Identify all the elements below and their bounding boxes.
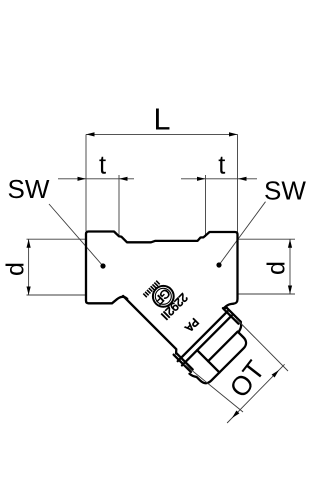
logo GF emblem [151, 285, 174, 308]
collar rim outer upper [227, 308, 241, 322]
wire: L dimension extension line right [237, 134, 239, 232]
wire: SW leader line left [49, 204, 103, 266]
wire: SW leader line right [219, 202, 266, 265]
wire: OT extension line lower [184, 364, 243, 412]
wire: L dimension line [86, 133, 238, 135]
collar flange face 1 [178, 311, 228, 361]
wire: t right dimension line [181, 178, 257, 180]
outlet branch assembly (rotated 45deg) [117, 250, 255, 388]
wire: d left upper extension line [27, 238, 87, 240]
union nut chamfer and flats outline upper [189, 321, 256, 388]
wire: t right extension line [205, 175, 207, 237]
wire: branch lower wall [121, 296, 179, 354]
wire: d left lower extension line [27, 294, 87, 296]
union nut perpendicular split line [208, 332, 238, 362]
svg-text:t: t [99, 152, 106, 180]
wire: OT dimension line [227, 364, 285, 423]
wire: branch upper wall jog [223, 306, 227, 310]
union nut axial flat line [197, 350, 219, 372]
wire: t left extension line [118, 175, 120, 237]
wire: d right lower extension line [238, 293, 295, 295]
collar rim outer lower [174, 355, 191, 372]
wire: d right dimension line [289, 239, 291, 294]
svg-text:SW: SW [8, 174, 50, 204]
node center mark dot left [100, 263, 105, 268]
node center mark dot right [216, 262, 221, 267]
svg-text:SW: SW [264, 176, 306, 206]
wire: OT extension line upper [237, 319, 289, 371]
body outline of fitting [86, 232, 238, 308]
wire: t left dimension line [58, 178, 134, 180]
svg-text:d: d [2, 262, 30, 276]
mold micro hatch text [143, 281, 159, 297]
wire: d right upper extension line [238, 238, 295, 240]
svg-text:t: t [218, 152, 225, 180]
collar rim inner upper [224, 309, 239, 324]
collar rim inner lower [176, 353, 192, 369]
svg-text:L: L [154, 103, 171, 137]
collar flange face 2 [182, 316, 232, 366]
svg-text:d: d [263, 261, 291, 275]
wire: L dimension extension line left [85, 134, 87, 231]
wire: d left dimension line [28, 239, 30, 295]
